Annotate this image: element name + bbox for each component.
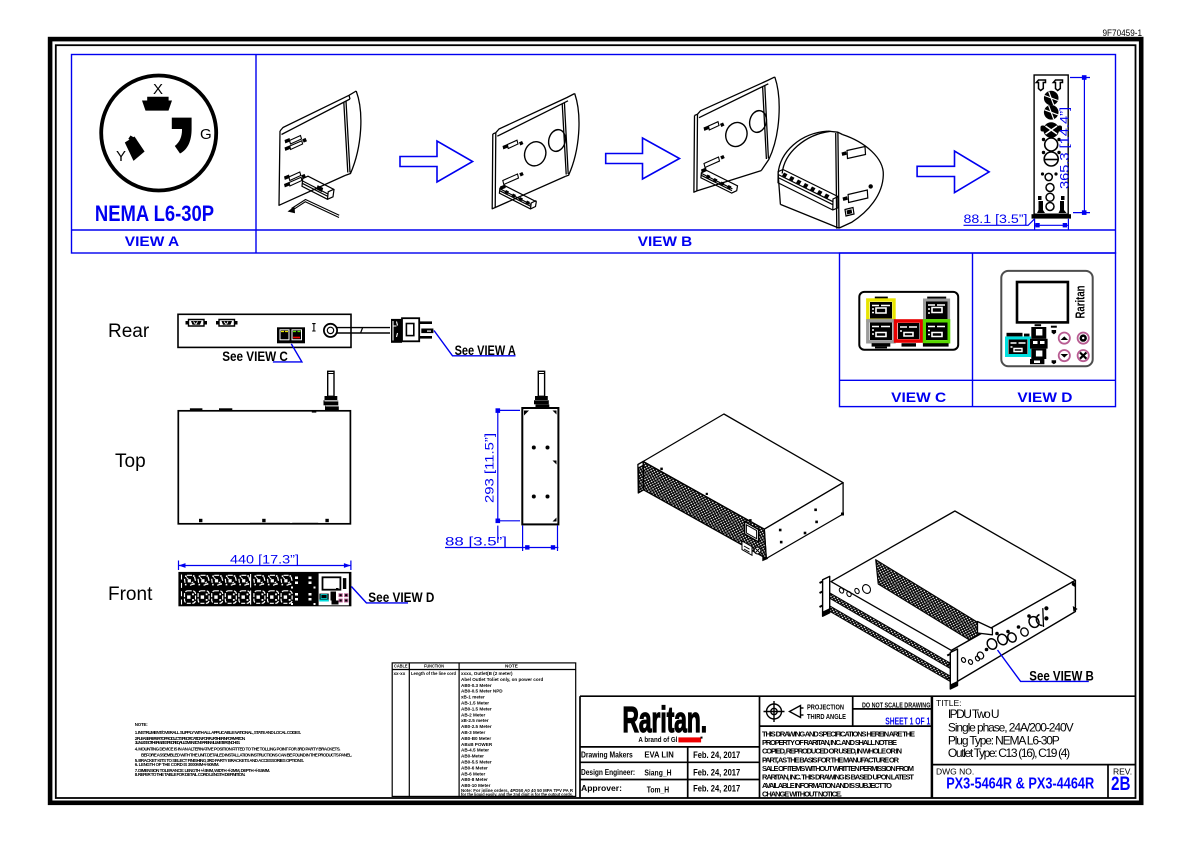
step2 holes [521, 128, 567, 169]
VIEW C gray port right [925, 300, 949, 320]
dimension 365.3 [14.4"] [1070, 75, 1090, 215]
svg-text:xB-2.5 meter: xB-2.5 meter [461, 718, 489, 723]
svg-text:xxxx, Outlet(B (2 meter): xxxx, Outlet(B (2 meter) [461, 671, 513, 676]
svg-text:AB-6 Meter: AB-6 Meter [461, 771, 485, 776]
iso2 front rack ear [950, 649, 957, 689]
svg-text:for the liquid easily, and the: for the liquid easily, and the 2nd digit… [461, 792, 573, 797]
svg-text:Rear: Rear [108, 321, 150, 342]
iso2 top face [831, 511, 1075, 650]
svg-text:Outlet Type: C13 (16), C19 (4): Outlet Type: C13 (16), C19 (4) [948, 746, 1070, 760]
step2 slots and screws [500, 140, 524, 190]
svg-text:A brand of Gl: A brand of Gl [638, 737, 677, 744]
svg-text:365.3 [14.4”]: 365.3 [14.4”] [1060, 107, 1072, 189]
svg-text:VIEW C: VIEW C [891, 390, 946, 405]
pin G blade [172, 118, 192, 154]
svg-text:AB0-5.5 Meter: AB0-5.5 Meter [461, 760, 492, 765]
rear cable [337, 328, 390, 333]
step3 holes [723, 109, 769, 150]
svg-text:AB0-0.5 Meter NPD: AB0-0.5 Meter NPD [461, 689, 503, 694]
svg-text:Raritan: Raritan [1073, 285, 1088, 318]
svg-text:Feb. 24, 2017: Feb. 24, 2017 [693, 768, 740, 778]
svg-text:88.1 [3.5”]: 88.1 [3.5”] [964, 214, 1028, 226]
tall plate top hooks [1036, 80, 1062, 91]
step3 slots and screws [701, 122, 725, 173]
pin X blade [142, 97, 172, 111]
arrow 3 [917, 151, 989, 193]
svg-text:PX3-5464R & PX3-4464R: PX3-5464R & PX3-4464R [946, 775, 1094, 792]
top view bottom screws [199, 519, 329, 525]
svg-text:Raritan.: Raritan. [623, 699, 708, 740]
iso2 long rail 1 [829, 593, 951, 670]
svg-text:VIEW B: VIEW B [638, 234, 693, 249]
iso2 small left panel holes [838, 583, 872, 597]
disclaimer text [762, 730, 915, 799]
see view d leader and text [351, 587, 408, 603]
iso2 tray hatched PDU face [876, 560, 985, 650]
step1 bottom rail [302, 176, 334, 199]
VIEW D panel outline [1001, 271, 1092, 366]
VIEW C top tabs [875, 297, 888, 301]
svg-text:440 [17.3”]: 440 [17.3”] [230, 555, 299, 567]
top view tabs on top edge [190, 408, 316, 412]
svg-text:Front: Front [108, 584, 153, 605]
svg-text:FUNCTION: FUNCTION [424, 664, 445, 669]
revision table content lines [461, 671, 574, 797]
side view cord [534, 371, 549, 408]
iso1 display [742, 522, 761, 556]
iso1 top face [643, 414, 843, 529]
VIEW D LCD screen [1017, 282, 1068, 322]
svg-text:DO NOT SCALE DRAWING: DO NOT SCALE DRAWING [862, 700, 931, 709]
svg-text:4. MOUNTING DEVICE IS IN AN AL: 4. MOUNTING DEVICE IS IN AN ALTERNATIVE … [135, 747, 341, 752]
rear small I mark [312, 324, 315, 331]
svg-text:Length of the line cord: Length of the line cord [411, 671, 456, 676]
VIEW C red port [896, 321, 922, 341]
svg-text:Feb. 24, 2017: Feb. 24, 2017 [693, 750, 740, 760]
VIEW B endcap dome [778, 131, 883, 229]
svg-text:8. REFER TO THE TABLE FOR DETA: 8. REFER TO THE TABLE FOR DETAIL CORD LE… [135, 772, 246, 777]
isometric view 2 (rack tray) [820, 511, 1076, 689]
svg-text:VIEW A: VIEW A [125, 234, 180, 249]
svg-text:AB0-6 Meter: AB0-6 Meter [461, 765, 488, 770]
step1 slots and screws [284, 136, 307, 188]
svg-text:AB-2 Meter: AB-2 Meter [461, 712, 485, 717]
svg-text:AB-1.5 Meter: AB-1.5 Meter [461, 701, 489, 706]
iso1 right face [764, 483, 843, 559]
title block [580, 696, 1136, 798]
revision table header [394, 664, 518, 677]
iso2 long rail 2 [829, 606, 951, 683]
VIEW B step 3 bracket plate [694, 77, 779, 192]
svg-text:88 [3.5”]: 88 [3.5”] [445, 537, 507, 549]
svg-text:AB-4.5 Meter: AB-4.5 Meter [461, 748, 489, 753]
svg-text:Tom_H: Tom_H [647, 786, 670, 795]
svg-text:BEFORE ASSEMBLED WITH THE UNIT: BEFORE ASSEMBLED WITH THE UNIT. DETAILED… [141, 753, 352, 758]
projection symbol [764, 701, 804, 722]
svg-text:3. UNLESS OTHERWISE SPECIFIED,: 3. UNLESS OTHERWISE SPECIFIED, ALL DIMEN… [135, 740, 241, 745]
iso1 front face hatched [643, 462, 766, 559]
svg-text:AB0-Meter: AB0-Meter [461, 754, 484, 759]
iso2 band cutout [978, 622, 993, 635]
svg-text:xB-1 meter: xB-1 meter [461, 695, 485, 700]
svg-text:PROJECTION: PROJECTION [807, 705, 844, 712]
svg-text:6. LENGTH OF THE CORD IS 3000M: 6. LENGTH OF THE CORD IS 3000MM+/-50MM. [135, 762, 220, 767]
svg-text:NOTE: NOTE [505, 664, 518, 669]
Rear view body [178, 314, 351, 347]
svg-text:Y: Y [116, 148, 126, 165]
endcap rail hatched [778, 170, 838, 211]
svg-text:Top: Top [115, 451, 146, 472]
VIEW B step 1 bracket plate [279, 91, 361, 205]
Side view body [522, 408, 558, 524]
svg-text:See VIEW C: See VIEW C [222, 349, 288, 364]
see view a leader and text [434, 331, 516, 356]
see view b leader and text [998, 650, 1089, 681]
rear plug [391, 318, 433, 343]
svg-text:IPDU Two U: IPDU Two U [948, 707, 1000, 721]
notes block [135, 722, 352, 777]
tall plate bottom flange [1032, 214, 1072, 218]
svg-text:Abel Outlet Toliet only, on po: Abel Outlet Toliet only, on power cord [461, 677, 543, 682]
arrow 1 [400, 141, 473, 182]
see view c leader and text [273, 344, 302, 362]
side view corner marks and holes [524, 411, 557, 522]
revision table [392, 663, 576, 797]
arrow 2 [606, 138, 680, 179]
VIEW C gray port left [868, 321, 894, 342]
iso2 front band holes [961, 582, 1077, 665]
rear cable gland circle [324, 324, 337, 337]
svg-text:VIEW D: VIEW D [1017, 390, 1072, 405]
pin Y blade [125, 136, 145, 161]
svg-text:Design Engineer:: Design Engineer: [581, 768, 635, 777]
Front view strip [178, 572, 351, 606]
tall mounting plate [1034, 75, 1068, 214]
svg-text:Siang_H: Siang_H [644, 769, 671, 778]
svg-text:CABLE: CABLE [394, 664, 408, 669]
rear view port module (see view c) [277, 327, 305, 343]
svg-text:Approver:: Approver: [581, 784, 622, 793]
svg-text:NOTE:: NOTE: [135, 722, 149, 727]
svg-text:AB0-0.3 Meter: AB0-0.3 Meter [461, 683, 492, 688]
svg-text:Drawing Makers: Drawing Makers [581, 750, 633, 759]
svg-text:X: X [153, 81, 163, 98]
VIEW D USB cluster [1030, 324, 1057, 364]
VIEW C / VIEW D panel [840, 253, 1116, 407]
svg-text:EVA LIN: EVA LIN [644, 750, 674, 759]
VIEW C green port [925, 321, 949, 342]
svg-text:AB0-B0 Meter: AB0-B0 Meter [461, 736, 491, 741]
svg-text:Feb. 24, 2017: Feb. 24, 2017 [693, 784, 740, 794]
VIEW C yellow port [868, 300, 894, 320]
top view cord [324, 371, 340, 410]
svg-text:THIRD ANGLE: THIRD ANGLE [807, 714, 846, 721]
svg-text:CHANGE WITHOUT NOTICE.: CHANGE WITHOUT NOTICE. [762, 790, 842, 799]
svg-text:G: G [200, 126, 212, 143]
step2 bottom rail [499, 186, 536, 209]
rear view DB9 connector 1 [186, 320, 208, 327]
iso1 left end cap [638, 462, 644, 494]
VIEW B step 2 bracket plate [492, 94, 579, 209]
iso2 front band with holes [951, 580, 1075, 684]
svg-text:xx-xx: xx-xx [394, 671, 406, 676]
dim 293 [11.5"] [496, 408, 521, 543]
svg-text:AB0-1.5 Meter: AB0-1.5 Meter [461, 706, 492, 711]
svg-text:1. INSTRUMENT/OVERALL SUPPLY W: 1. INSTRUMENT/OVERALL SUPPLY WITH ALL AP… [135, 730, 301, 735]
Top view body [178, 411, 350, 524]
svg-text:AB0-8 Meter: AB0-8 Meter [461, 777, 488, 782]
iso2 left rack ear [823, 576, 830, 616]
VIEW D buttons [1059, 333, 1089, 362]
svg-text:AB-3 Meter: AB-3 Meter [461, 730, 485, 735]
top panel border [72, 55, 1116, 254]
tall plate connector circles [1037, 91, 1067, 213]
svg-text:See VIEW B: See VIEW B [1029, 668, 1094, 683]
VIEW C bottom pin rows [872, 343, 949, 348]
svg-text:2B: 2B [1111, 774, 1131, 795]
VIEW C port cluster outline [859, 292, 958, 350]
svg-text:ABxB POWER: ABxB POWER [461, 742, 493, 747]
step3 bottom rail with dots [701, 170, 738, 193]
isometric view 1 (assembled PDU) [638, 414, 843, 559]
svg-text:AB0-2.5 Meter: AB0-2.5 Meter [461, 724, 492, 729]
svg-text:NEMA L6-30P: NEMA L6-30P [95, 201, 214, 226]
front view breaker dots [291, 577, 316, 606]
iso1 small dots [660, 468, 844, 562]
rear view DB9 connector 2 [216, 320, 238, 327]
svg-text:SHEET 1 OF 1: SHEET 1 OF 1 [885, 716, 930, 727]
svg-text:293 [11.5”]: 293 [11.5”] [485, 433, 497, 503]
svg-text:Single phase, 24A/200-240V: Single phase, 24A/200-240V [948, 721, 1074, 735]
endcap plate slots [842, 147, 873, 217]
NEMA L6-30P connector circle [101, 76, 216, 191]
svg-text:See VIEW D: See VIEW D [368, 590, 434, 605]
svg-text:See VIEW A: See VIEW A [455, 343, 516, 358]
step1 hex key with arrow [288, 200, 340, 218]
front view display module [319, 573, 349, 605]
VIEW D cyan sensor port [1007, 333, 1030, 356]
